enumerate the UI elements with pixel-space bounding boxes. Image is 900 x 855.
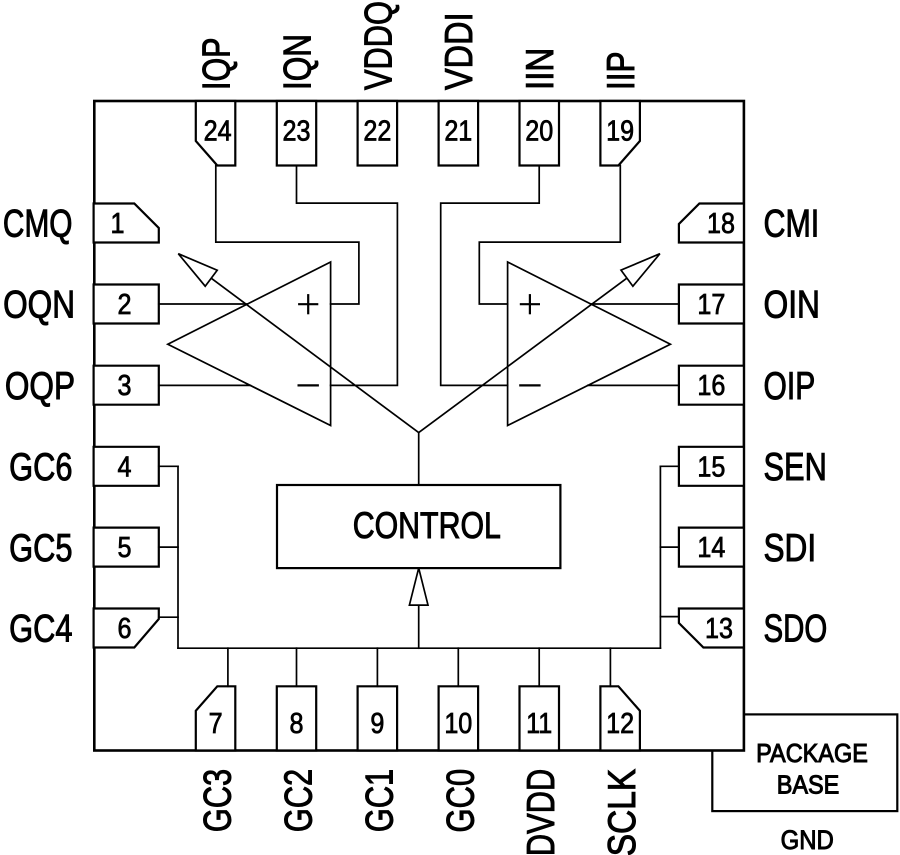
pin 15 box [679, 447, 744, 486]
svg-text:GC4: GC4 [9, 607, 72, 650]
pin 12 box [600, 686, 640, 750]
svg-text:IQP: IQP [196, 38, 238, 90]
svg-text:13: 13 [705, 613, 733, 645]
svg-text:CMI: CMI [764, 203, 820, 245]
pin 21 box [439, 101, 479, 166]
A1 plus input marker [299, 303, 317, 305]
svg-text:SCLK: SCLK [600, 769, 644, 855]
svg-text:GC0: GC0 [439, 769, 482, 833]
wire pin14 SDI stub [660, 546, 679, 548]
pin 10 box [439, 686, 479, 750]
pin 8 box [277, 686, 316, 750]
svg-text:20: 20 [525, 115, 553, 147]
wire pin17 OIN from A2 [591, 303, 679, 305]
wire pin7 GC3 stub [227, 648, 229, 686]
svg-text:23: 23 [283, 115, 311, 147]
wire left gain bus vertical [177, 466, 179, 648]
arrow into CONTROL (head) [409, 568, 428, 605]
gain arrow through A2 (shaft) [419, 278, 627, 433]
svg-text:OIP: OIP [764, 365, 816, 407]
wire pin11 DVDD stub [538, 648, 540, 686]
pin 2 box [94, 285, 159, 324]
wire pin8 GC2 stub [296, 648, 298, 686]
wire pin2 OQN from A1 [159, 303, 248, 305]
gain arrow through A1 (head) [178, 254, 217, 287]
pin 11 box [520, 686, 560, 750]
svg-text:CMQ: CMQ [3, 203, 73, 245]
pin 20 box [520, 101, 560, 166]
pin 16 box [679, 366, 744, 405]
wire pin10 GC0 stub [457, 648, 459, 686]
svg-text:5: 5 [118, 532, 132, 564]
svg-text:SDO: SDO [764, 608, 828, 651]
package base (exposed pad) box [712, 714, 897, 811]
svg-text:16: 16 [697, 370, 725, 402]
svg-text:VDDI: VDDI [438, 12, 481, 90]
wire bus to CONTROL (shaft) [418, 605, 420, 648]
wire right serial bus vertical [659, 466, 661, 648]
wire pin12 SCLK stub [609, 648, 611, 686]
svg-text:GC3: GC3 [196, 769, 239, 832]
svg-text:GND: GND [781, 826, 834, 855]
pin 4 box [94, 447, 159, 486]
svg-text:GC1: GC1 [358, 769, 401, 832]
wire pin24 IQP to A1 + input [216, 166, 359, 305]
svg-text:14: 14 [697, 532, 725, 564]
svg-text:IIN: IIN [519, 48, 562, 90]
IC package outline U1 [94, 101, 744, 751]
svg-text:3: 3 [118, 370, 132, 402]
pin 17 box [679, 285, 744, 324]
svg-text:GC2: GC2 [277, 769, 320, 832]
svg-text:17: 17 [697, 289, 725, 321]
svg-text:OIN: OIN [764, 284, 820, 327]
svg-text:21: 21 [444, 115, 472, 147]
svg-text:GC6: GC6 [9, 446, 72, 489]
wire pin13 SDO stub [660, 616, 679, 618]
svg-text:11: 11 [526, 708, 552, 740]
svg-text:8: 8 [290, 708, 304, 740]
op-amp A1 (Q-channel VGA) triangle [168, 262, 331, 426]
wire pin19 IIP to A2 + input [479, 166, 620, 305]
svg-text:4: 4 [118, 451, 132, 483]
svg-text:OQP: OQP [5, 365, 75, 408]
wire CONTROL to Y junction [418, 433, 420, 485]
pin 9 box [358, 686, 398, 750]
svg-text:IQN: IQN [276, 34, 319, 90]
A2 plus input marker [521, 303, 539, 305]
wire pin9 GC1 stub [376, 648, 378, 686]
svg-text:15: 15 [697, 451, 725, 483]
svg-text:12: 12 [606, 708, 634, 740]
svg-text:SEN: SEN [764, 446, 827, 489]
pin 14 box [679, 528, 744, 567]
pin 13 box [679, 609, 744, 648]
svg-text:2: 2 [118, 289, 132, 321]
wire pin6 GC4 stub [159, 616, 178, 618]
pin 3 box [94, 366, 159, 405]
svg-text:OQN: OQN [3, 284, 75, 327]
pin 19 box [600, 101, 640, 166]
pin 7 box [196, 686, 236, 750]
CONTROL block [277, 485, 560, 568]
pin 5 box [94, 528, 159, 567]
svg-text:22: 22 [363, 115, 391, 147]
wire pin3 OQP from A1 [159, 384, 251, 386]
svg-text:1: 1 [111, 208, 125, 240]
gain arrow through A1 (shaft) [211, 278, 419, 432]
wire pin23 IQN to A1 - input [297, 166, 398, 386]
svg-text:10: 10 [444, 708, 472, 740]
svg-text:DVDD: DVDD [520, 769, 563, 855]
svg-text:19: 19 [606, 115, 634, 147]
svg-text:BASE: BASE [777, 771, 840, 799]
svg-text:7: 7 [209, 708, 223, 740]
wire bottom gain bus horizontal [178, 647, 660, 649]
wire pin4 GC6 stub [159, 465, 178, 467]
svg-text:IIP: IIP [600, 51, 643, 90]
A1 minus input marker [299, 384, 318, 386]
pin 18 box [679, 204, 744, 243]
svg-text:24: 24 [204, 115, 232, 147]
wire pin15 SEN stub [660, 465, 679, 467]
pin 1 box [94, 204, 159, 243]
pin 24 box [196, 101, 236, 166]
svg-text:9: 9 [370, 708, 384, 740]
pin 23 box [277, 101, 316, 166]
svg-text:18: 18 [707, 208, 735, 240]
A2 minus input marker [520, 384, 539, 386]
gain arrow through A2 (head) [621, 254, 660, 287]
svg-text:VDDQ: VDDQ [357, 1, 400, 90]
pin 22 box [358, 101, 398, 166]
pin 6 box [94, 609, 159, 648]
wire pin16 OIP from A2 [588, 384, 679, 386]
svg-text:PACKAGE: PACKAGE [756, 740, 868, 768]
op-amp A2 (I-channel VGA) triangle [508, 262, 671, 426]
svg-text:6: 6 [118, 613, 132, 645]
svg-text:GC5: GC5 [9, 527, 72, 570]
wire pin5 GC5 stub [159, 546, 178, 548]
wire pin20 IIN to A2 - input [441, 166, 540, 386]
svg-text:SDI: SDI [764, 527, 817, 570]
svg-text:CONTROL: CONTROL [353, 505, 501, 547]
